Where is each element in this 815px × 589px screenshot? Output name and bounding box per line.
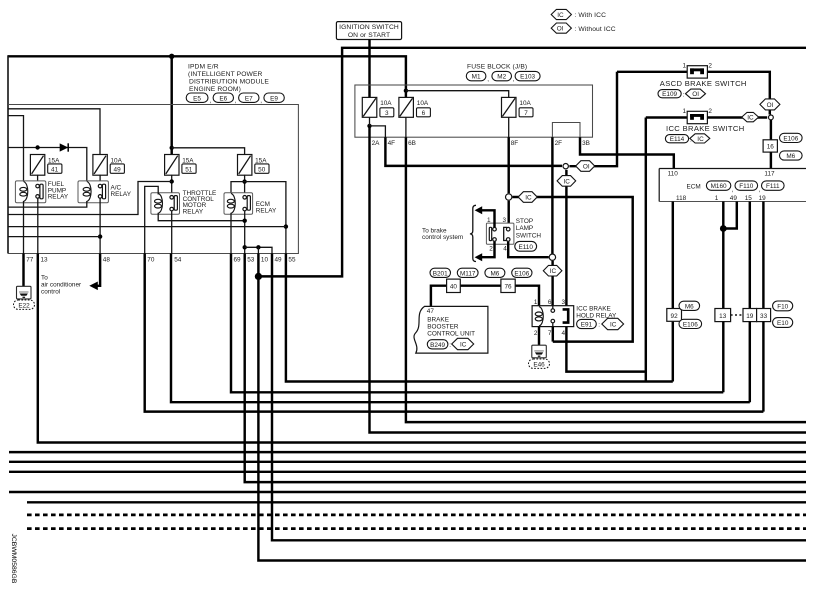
fuel pump relay box <box>15 181 45 203</box>
fuse block pin labels <box>372 140 590 147</box>
svg-text:15A: 15A <box>48 157 60 164</box>
dashed link box13-box19 <box>731 314 743 316</box>
svg-text:B249: B249 <box>430 342 445 349</box>
junction dot pin1/49 <box>720 225 727 232</box>
label ICC BRAKE SWITCH <box>665 124 744 143</box>
through connector box 40 <box>447 279 461 292</box>
svg-text:F10: F10 <box>777 304 788 311</box>
wire pin48 branch to border <box>8 236 100 238</box>
svg-text:,: , <box>759 187 761 194</box>
wire fuse6 bottom stub <box>405 117 407 137</box>
through connector box 33 <box>757 309 771 322</box>
svg-text:13: 13 <box>41 257 49 264</box>
wire ASCD pin2 to OI node <box>707 72 769 115</box>
wire ECM coil top / pin55 branch <box>231 182 286 254</box>
svg-text:IC: IC <box>747 115 754 122</box>
junction dot bus/IPDM feed <box>169 54 174 59</box>
hexagon IC on ICC pin2 wire <box>742 112 759 121</box>
svg-text:7: 7 <box>548 330 552 337</box>
junction dot coil/contact node <box>243 219 247 223</box>
wire ICC pin2 to node <box>707 116 767 118</box>
junction dot fuse 51/50 branch <box>170 146 174 150</box>
svg-text:FUSE BLOCK (J/B): FUSE BLOCK (J/B) <box>467 63 527 70</box>
svg-text:110: 110 <box>668 171 679 178</box>
svg-text:IC: IC <box>550 268 557 275</box>
svg-text:76: 76 <box>504 283 512 290</box>
hexagon IC on pin6 wire <box>543 265 562 276</box>
svg-text:E114: E114 <box>670 136 685 143</box>
svg-text:4F: 4F <box>388 140 396 147</box>
relay C contact <box>563 309 569 322</box>
svg-text:10A: 10A <box>519 100 531 107</box>
relay coil <box>535 307 543 326</box>
wire 4F branch <box>370 126 386 137</box>
wire pin 13 to bottom bus <box>38 254 806 443</box>
label To brake control system <box>422 227 463 240</box>
svg-text:RELAY: RELAY <box>256 207 277 214</box>
ASCD brake switch box <box>682 63 712 79</box>
wire pin 55 to ECM118 bus <box>286 254 673 382</box>
wire ECM 118 down through box92 <box>672 202 674 382</box>
svg-text::: : <box>449 342 451 349</box>
IPDM enclosure box <box>8 105 298 254</box>
wire pin53-10-49 link <box>245 247 272 253</box>
bus line y=502.3 <box>27 501 806 503</box>
wire 3B to ECM 110 <box>580 137 674 168</box>
svg-text:RELAY: RELAY <box>48 194 69 201</box>
svg-text:ICC BRAKE: ICC BRAKE <box>576 306 610 313</box>
svg-text:To: To <box>41 274 48 281</box>
svg-text:E109: E109 <box>662 91 677 98</box>
wire fuse6 top to fuse7 top <box>406 91 509 98</box>
svg-text:M117: M117 <box>460 270 476 277</box>
wire pin 69 to bus <box>231 254 723 393</box>
label ASCD BRAKE SWITCH <box>658 79 747 99</box>
svg-text:,: , <box>513 76 515 83</box>
svg-text:4: 4 <box>503 246 507 253</box>
connector oval E10 <box>773 318 793 328</box>
svg-text:ENGINE ROOM): ENGINE ROOM) <box>189 86 241 93</box>
dashed bus y=514.9 <box>27 514 806 517</box>
wire fuel contact bottom pin13 <box>37 199 39 254</box>
svg-text:10: 10 <box>261 257 269 264</box>
svg-text:E22: E22 <box>18 302 30 309</box>
svg-text:M160: M160 <box>711 183 727 190</box>
junction dot ECM relay branch <box>242 179 246 183</box>
svg-text:OI: OI <box>767 102 774 109</box>
through connector box 76 <box>501 279 515 292</box>
svg-text:OI: OI <box>583 163 590 170</box>
wire A/C contact bottom pin 48 <box>99 199 101 254</box>
svg-text::: : <box>683 91 685 98</box>
wire booster to relay pin1 <box>431 286 539 307</box>
svg-text:ON or START: ON or START <box>348 32 390 39</box>
wire fuse49 to AC contact <box>99 175 101 184</box>
svg-text:1: 1 <box>534 299 538 306</box>
wire ECM relay coil bottom pin 69 <box>230 213 232 254</box>
hexagon IC on pin3 wire <box>557 176 576 187</box>
svg-text:3B: 3B <box>582 140 590 147</box>
through connector box 19 <box>743 309 757 322</box>
ECM pin labels top <box>668 171 775 178</box>
ignition switch box <box>336 22 401 40</box>
wire pin 10 to bus <box>258 254 806 561</box>
ECM label and connectors <box>687 181 785 194</box>
svg-text:41: 41 <box>51 167 59 174</box>
stop lamp switch box <box>486 223 514 244</box>
svg-text:ECM: ECM <box>687 183 701 190</box>
ECM relay box <box>224 193 253 214</box>
arrow to air conditioner control <box>89 282 98 291</box>
left page border <box>7 55 9 253</box>
fuel pump relay coil <box>20 182 28 202</box>
node circle 2F/pin4 <box>549 254 555 260</box>
svg-text:19: 19 <box>746 313 754 320</box>
svg-text:77: 77 <box>26 257 34 264</box>
wire 4F to OI circle node <box>385 137 562 166</box>
connector oval E7 <box>239 93 259 102</box>
wire 2F-3B internal link <box>552 123 580 138</box>
wire ECM pin19 <box>762 202 764 309</box>
fuse 10A 3 <box>362 97 394 117</box>
svg-text:19: 19 <box>759 195 767 202</box>
svg-text:E106: E106 <box>514 270 529 277</box>
svg-text:49: 49 <box>730 195 738 202</box>
wire pin55 branch to left border <box>8 226 286 228</box>
svg-text:IGNITION SWITCH: IGNITION SWITCH <box>339 24 399 31</box>
junction dot throttle branch <box>170 179 174 183</box>
junction dot pin53/10 <box>243 245 247 249</box>
svg-text:49: 49 <box>275 257 283 264</box>
svg-text:BRAKE: BRAKE <box>427 317 449 324</box>
wire throttle coil bottom to pin53 node <box>158 213 245 221</box>
svg-text:IC: IC <box>564 178 571 185</box>
A/C relay coil <box>83 182 91 202</box>
wire fuel coil bottom pin77 <box>23 201 25 254</box>
ICC brake switch box <box>682 108 712 124</box>
legend IC hexagon : With ICC <box>551 9 606 19</box>
svg-text:6: 6 <box>548 299 552 306</box>
wire 2F to stop lamp node <box>551 137 553 253</box>
svg-text:: With ICC: : With ICC <box>574 12 606 19</box>
wire pin 77 to ground <box>22 254 24 294</box>
junction dot fuse6 top <box>404 89 408 93</box>
svg-text:E106: E106 <box>683 322 698 329</box>
svg-text:E9: E9 <box>270 95 278 102</box>
wire to fuel pump coil from border <box>8 116 24 183</box>
wire node to box16 <box>770 120 772 140</box>
ICC brake hold relay box <box>532 306 574 327</box>
svg-text:1: 1 <box>715 195 719 202</box>
svg-text:M1: M1 <box>472 74 481 81</box>
svg-text:M2: M2 <box>497 74 506 81</box>
dashed bus y=528.6 <box>27 527 806 530</box>
label ECM RELAY <box>256 201 277 214</box>
junction dot pin55 left branch <box>284 224 288 228</box>
svg-text:40: 40 <box>450 283 458 290</box>
svg-text:M6: M6 <box>490 270 499 277</box>
svg-text:15A: 15A <box>255 157 267 164</box>
fuse 10A 6 <box>399 97 431 117</box>
svg-text:6: 6 <box>422 110 426 117</box>
ICC brake switch wire pin1 <box>646 116 687 118</box>
svg-text:10A: 10A <box>417 100 429 107</box>
svg-text:OI: OI <box>692 91 699 98</box>
wire IC branch down to relay pin3 <box>565 170 567 306</box>
svg-text:LAMP: LAMP <box>516 225 533 232</box>
svg-text:6B: 6B <box>408 140 416 147</box>
svg-text:2: 2 <box>708 63 712 70</box>
svg-text:13: 13 <box>719 313 727 320</box>
svg-text:OI: OI <box>557 26 564 33</box>
label STOP LAMP SWITCH <box>515 218 542 251</box>
svg-text:,: , <box>210 98 212 105</box>
svg-text:E106: E106 <box>783 136 798 143</box>
wire main battery bus y=56.3 <box>8 56 406 97</box>
wire fuse7 bottom stub <box>508 117 510 137</box>
svg-text:3: 3 <box>385 110 389 117</box>
svg-text:control system: control system <box>422 234 463 241</box>
wire fuse3 bottom stub <box>369 117 371 126</box>
svg-text:2: 2 <box>708 108 712 115</box>
wire pin10 stub <box>257 247 259 253</box>
connector oval M2 <box>492 71 512 80</box>
svg-text:10A: 10A <box>111 157 123 164</box>
diode D1 <box>60 143 68 151</box>
wire pin 53 to bus <box>245 254 806 483</box>
svg-text:8F: 8F <box>511 140 519 147</box>
wire ICC switch pin1 vertical <box>645 118 647 382</box>
bus line y=461.8 <box>9 461 806 463</box>
svg-text:E10: E10 <box>777 320 789 327</box>
fuse 15A 50 <box>238 155 270 176</box>
svg-text:ASCD BRAKE SWITCH: ASCD BRAKE SWITCH <box>660 79 747 88</box>
svg-text:2A: 2A <box>372 140 381 147</box>
svg-text:DISTRIBUTION MODULE: DISTRIBUTION MODULE <box>189 78 269 85</box>
svg-text:4: 4 <box>562 330 566 337</box>
svg-text:IC: IC <box>525 194 532 201</box>
fuse block enclosure <box>355 85 593 137</box>
fuel pump relay contact <box>36 184 43 199</box>
stop lamp contacts <box>489 227 510 241</box>
connector oval E106 <box>512 268 532 277</box>
hexagon IC on stop lamp wire <box>518 192 537 203</box>
junction dot fuse41 top <box>35 145 39 149</box>
svg-text:F110: F110 <box>739 183 754 190</box>
label FUEL PUMP RELAY <box>48 181 69 200</box>
svg-text:E103: E103 <box>520 74 535 81</box>
svg-text:JCBWM0586GB: JCBWM0586GB <box>10 534 17 584</box>
svg-text:48: 48 <box>103 257 111 264</box>
svg-text:BOOSTER: BOOSTER <box>427 324 459 331</box>
A/C relay box <box>78 181 108 203</box>
svg-text:E5: E5 <box>193 95 201 102</box>
stop lamp pin labels <box>487 217 507 253</box>
wire fuse50 to ECM relay contact <box>244 175 246 195</box>
svg-text:CONTROL UNIT: CONTROL UNIT <box>427 331 475 338</box>
svg-text:70: 70 <box>147 257 155 264</box>
through connector box 16 <box>763 133 802 160</box>
svg-text:,: , <box>732 187 734 194</box>
bus line y=471.8 <box>9 471 806 473</box>
svg-text:2: 2 <box>534 330 538 337</box>
wire ECM pin49 join <box>723 202 737 229</box>
wire IPDM fuse feed vertical <box>170 56 172 155</box>
connector oval E6 <box>213 93 233 102</box>
label brake booster <box>427 308 475 350</box>
through connector box 92 <box>667 301 702 328</box>
through connector box 13 <box>715 309 731 322</box>
wire pin 48 to air conditioner arrow <box>95 254 100 286</box>
wire ECM relay contact bottom pin 53 <box>244 211 246 253</box>
wire A/C coil bottom to left border <box>8 201 87 207</box>
wire ECM pin15 <box>749 202 751 309</box>
wire fuse41 to fuel pump contact <box>37 175 39 184</box>
wire throttle branch to left <box>8 182 172 215</box>
connector oval E103 <box>515 71 540 80</box>
connector oval M1 <box>466 71 486 80</box>
wire box19 to bus <box>749 322 751 403</box>
svg-text:M6: M6 <box>685 303 694 310</box>
wire ECM pin1 <box>722 202 724 309</box>
svg-text:M6: M6 <box>786 153 795 160</box>
fuse 10A 49 <box>93 155 124 176</box>
svg-text:47: 47 <box>427 308 435 315</box>
svg-text:control: control <box>41 289 60 296</box>
svg-text:7: 7 <box>524 110 528 117</box>
ECM pin labels bottom <box>676 195 766 202</box>
svg-text:118: 118 <box>676 195 687 202</box>
svg-text:E6: E6 <box>219 95 227 102</box>
svg-text:RELAY: RELAY <box>111 191 132 198</box>
wire throttle contact bottom pin 54 <box>171 211 173 253</box>
ECM box <box>659 169 806 202</box>
svg-text:53: 53 <box>247 257 255 264</box>
wire box13 to bus <box>722 322 724 393</box>
svg-text:50: 50 <box>258 167 266 174</box>
svg-text:F111: F111 <box>766 183 780 190</box>
connector oval F10 <box>773 301 793 311</box>
ECM relay contact <box>243 196 251 211</box>
wire stop lamp pin4 to 2F node <box>508 242 549 258</box>
fuse 15A 41 <box>30 155 62 176</box>
svg-text:49: 49 <box>114 167 122 174</box>
wire pin 70 to bus <box>145 254 764 412</box>
svg-text:15A: 15A <box>182 157 194 164</box>
node circle 8F/stop lamp <box>506 194 633 342</box>
throttle relay box <box>151 193 180 214</box>
wire box33 to bus <box>762 322 764 412</box>
svg-text:(INTELLIGENT POWER: (INTELLIGENT POWER <box>188 71 263 78</box>
svg-text:SWITCH: SWITCH <box>516 232 542 239</box>
svg-text:10A: 10A <box>380 100 392 107</box>
svg-text:92: 92 <box>671 313 679 320</box>
IPDM pin labels <box>26 257 296 264</box>
svg-text:,: , <box>235 98 237 105</box>
wire to fuse 49 top from border <box>8 109 100 155</box>
svg-text:1: 1 <box>682 63 686 70</box>
wire 2F node to relay pin6 <box>551 261 553 306</box>
node circle ASCD/ICC join <box>769 115 774 120</box>
connector oval E5 <box>186 93 208 102</box>
svg-text:1: 1 <box>487 217 491 224</box>
wire 8F to stop lamp node <box>507 137 509 193</box>
wire 2A to bus <box>370 126 807 433</box>
svg-text:33: 33 <box>760 313 768 320</box>
svg-text:15: 15 <box>745 195 753 202</box>
wire pin 54 to bus <box>171 254 750 403</box>
svg-text:2F: 2F <box>555 140 563 147</box>
A/C relay contact <box>98 184 105 199</box>
node circle 4F/ASCD/OI <box>563 72 617 169</box>
svg-text:E110: E110 <box>518 244 533 251</box>
brake booster control unit box <box>414 306 488 353</box>
legend OI hexagon : Without ICC <box>551 23 616 33</box>
label THROTTLE CONTROL MOTOR RELAY <box>183 190 217 216</box>
wire relay pin4 to ICC switch line <box>566 327 645 372</box>
relay contact circles <box>551 306 555 327</box>
ECM relay coil <box>227 193 235 213</box>
wire diode line from border <box>8 148 87 183</box>
svg-text::: : <box>598 322 600 329</box>
svg-text:STOP: STOP <box>516 218 533 225</box>
svg-text:16: 16 <box>767 144 775 151</box>
svg-text:,: , <box>260 98 262 105</box>
svg-text:ICC BRAKE SWITCH: ICC BRAKE SWITCH <box>666 124 745 133</box>
svg-text:E46: E46 <box>533 361 545 368</box>
svg-text:69: 69 <box>234 257 242 264</box>
connector oval B201 <box>430 268 451 277</box>
svg-text:54: 54 <box>174 257 182 264</box>
connector oval M6 <box>485 268 505 277</box>
svg-text:3: 3 <box>503 217 507 224</box>
junction dot fuse3 bottom <box>367 124 371 128</box>
svg-text:air conditioner: air conditioner <box>41 282 82 289</box>
wire ignition bus y=47.8 <box>258 48 806 277</box>
svg-text:3: 3 <box>562 299 566 306</box>
wire throttle coil top to pin 70 <box>145 186 159 253</box>
svg-text:RELAY: RELAY <box>183 208 204 215</box>
wire relay pin2 to ground E46 <box>538 327 540 352</box>
throttle relay contact <box>170 196 178 211</box>
wire 6B to bus <box>406 137 806 422</box>
IPDM E/R label <box>188 63 269 93</box>
wire box16 to ECM 117 <box>770 152 772 168</box>
hexagon OI on ASCD feed wire <box>576 161 595 172</box>
wire pin 49 to bus <box>272 254 806 541</box>
junction dot big ignition/pin10 <box>255 273 262 280</box>
wire branch to fuse 50 <box>172 148 245 155</box>
svg-text:55: 55 <box>288 257 296 264</box>
svg-text:,: , <box>487 76 489 83</box>
svg-text:B201: B201 <box>433 270 448 277</box>
svg-text:2: 2 <box>489 246 493 253</box>
connector oval E9 <box>264 93 284 102</box>
svg-text:E7: E7 <box>245 95 253 102</box>
svg-text:IC: IC <box>460 341 467 348</box>
wire ignition switch to fuse3 <box>368 40 370 98</box>
wire fuse51 to throttle contact <box>171 175 173 195</box>
relay pin labels <box>534 299 566 337</box>
fuse 15A 51 <box>165 155 196 176</box>
svg-text:IC: IC <box>557 12 564 19</box>
svg-text:117: 117 <box>764 171 775 178</box>
svg-text:51: 51 <box>185 167 193 174</box>
svg-text:IPDM E/R: IPDM E/R <box>188 63 219 70</box>
wire stop lamp pin1 arrow <box>479 210 495 227</box>
ASCD brake switch wire pin1 <box>617 71 687 73</box>
wire stop lamp pin3 <box>507 201 509 227</box>
